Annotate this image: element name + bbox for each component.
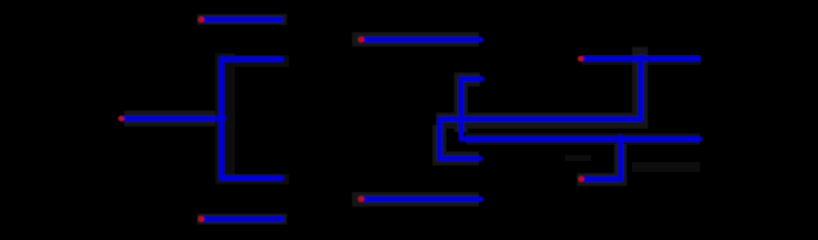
wire halo W6 (net B top horizontal) [582, 55, 701, 65]
node TL input (red dot) [198, 17, 204, 23]
wire halo W5 (middle-bottom) [352, 192, 479, 206]
wire W1 top-left: net TL [201, 17, 281, 22]
node BR input (red dot) [578, 176, 584, 182]
wire halo W4 (middle-top) [352, 32, 479, 46]
wire W4 middle-top [361, 37, 481, 42]
wire halo W6 (net B vertical + horizontal 1) [436, 47, 640, 121]
wire halo W7 (horizontal 2) [466, 133, 700, 145]
node MB input (red dot) [358, 196, 364, 202]
node IN input (red dot) [118, 116, 124, 122]
wire W6 net B top horizontal [581, 56, 699, 61]
node net B junction (blue diamond) [635, 54, 646, 63]
wire W2 splitter vertical [218, 59, 223, 178]
wire halo W2 (splitter top stub) [216, 56, 289, 68]
node net A junction (blue diamond) [615, 134, 627, 144]
faint element outline near BR dot [565, 155, 591, 161]
wire W6 net B vertical drop + horizontal 1 + left vertical + bottom stub [440, 59, 641, 159]
wire W2 splitter top stub [221, 56, 281, 61]
node MT input (red dot) [358, 37, 364, 43]
wire halo W7 (branch down to BR dot) [577, 144, 621, 180]
wire W2 splitter input segment [121, 116, 221, 121]
node splitter junction (blue diamond) [216, 114, 227, 123]
wire halo W3 (bottom-left) [197, 214, 287, 225]
wire halo W2 (splitter bottom stub) [216, 174, 289, 184]
wire halo W1 (top-left) [197, 14, 287, 25]
wire halo W7 (bottom elbow of net B) [440, 125, 480, 158]
wire halo W7 (hook stub + vertical) [461, 80, 480, 133]
node TR input (red dot) [578, 56, 584, 62]
wire halo W2 (splitter vertical) [215, 53, 235, 183]
node BL input (red dot) [198, 216, 204, 222]
wire halo W2 (splitter input) [124, 111, 232, 127]
wire W7 net A hook stub + vertical + horizontal 2 [461, 79, 700, 139]
wire W2 splitter bottom stub [221, 175, 281, 180]
wire W7 net A branch down to BR dot [581, 139, 621, 179]
faint element outline right of BR corner [632, 162, 700, 172]
wire W5 middle-bottom [361, 196, 481, 201]
wire W3 bottom-left [201, 216, 282, 221]
